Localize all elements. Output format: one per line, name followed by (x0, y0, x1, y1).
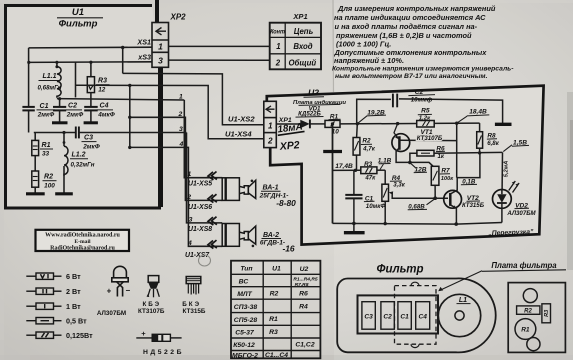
svg-text:АЛ307БМ: АЛ307БМ (506, 210, 536, 217)
svg-text:0,5 Вт: 0,5 Вт (66, 317, 87, 326)
svg-text:0,32мГн: 0,32мГн (70, 162, 94, 169)
svg-text:ВС: ВС (239, 278, 249, 285)
svg-text:К50-12: К50-12 (233, 342, 255, 349)
svg-text:3: 3 (158, 56, 163, 66)
svg-text:КТ315Б: КТ315Б (462, 202, 485, 209)
svg-text:R3: R3 (98, 78, 107, 85)
svg-text:R4: R4 (299, 303, 308, 310)
hole bottom (527, 338, 540, 351)
svg-text:RadiOtehnika@narod.ru: RadiOtehnika@narod.ru (50, 245, 115, 251)
svg-text:R1: R1 (521, 327, 530, 334)
capacitor C2 (U1) (59, 99, 61, 107)
capacitor C1 (layout) (398, 302, 411, 330)
svg-text:Общий: Общий (288, 58, 316, 67)
svg-text:Фильтр: Фильтр (59, 19, 98, 30)
svg-text:ным вольтметром В7-17 или анал: ным вольтметром В7-17 или аналогичным. (335, 73, 488, 80)
svg-text:4: 4 (187, 240, 192, 247)
inductor L1.2 (63, 133, 65, 147)
leader 9,2В (358, 116, 367, 123)
svg-text:2мкФ: 2мкФ (82, 144, 100, 151)
thick bus below XP2 (U1 right edge) (160, 67, 163, 207)
svg-text:R7,R8: R7,R8 (295, 282, 309, 288)
legend row 6W (26, 273, 61, 279)
resistor R6 (417, 150, 434, 156)
parts table (231, 261, 320, 359)
resistor R1 (layout) (515, 319, 536, 340)
connector XP1 (U2 side) (264, 101, 277, 147)
svg-text:R1: R1 (42, 142, 51, 149)
transistor package КТ3107Б (148, 276, 159, 283)
resistor R2 (layout) (517, 306, 540, 314)
svg-text:17,4В: 17,4В (335, 163, 353, 170)
wire node to R7 (410, 162, 433, 166)
svg-text:100к: 100к (441, 176, 454, 182)
common bus vertical from wire B (129, 85, 131, 147)
legend row 0,5W (26, 318, 61, 324)
wire rail R1 to R5 (340, 123, 417, 125)
wire rail R5 right (434, 122, 479, 124)
connector chevrons on speaker wires (208, 172, 217, 249)
svg-text:U1-XS8: U1-XS8 (188, 226, 212, 233)
ground bar under C4 (84, 121, 98, 124)
svg-text:-16: -16 (282, 244, 294, 254)
connector table XP1 (270, 23, 321, 70)
LED arrows (509, 181, 519, 193)
svg-text:+: + (107, 287, 112, 296)
page crease line (332, 0, 335, 92)
svg-text:Фильтр: Фильтр (377, 264, 424, 276)
resistor R3 (U1) (90, 62, 92, 76)
svg-text:−: − (125, 286, 130, 295)
svg-text:1,2к: 1,2к (419, 116, 431, 122)
transistor VT1 (392, 134, 410, 152)
svg-text:U1-XS4: U1-XS4 (225, 130, 252, 139)
legend row 1W (26, 303, 61, 309)
svg-text:C2: C2 (68, 103, 77, 110)
node junction on XS1 row (121, 46, 124, 49)
faint circle mark (199, 255, 211, 266)
svg-text:Цепь: Цепь (294, 27, 314, 36)
diode drawing НД522Б (136, 337, 152, 339)
U1 filter box outline (6, 6, 160, 209)
svg-text:R2: R2 (524, 308, 532, 314)
capacitor C1 (22, 107, 34, 111)
svg-text:U1-XS6: U1-XS6 (188, 204, 212, 211)
svg-text:Вход: Вход (293, 42, 312, 51)
bottom edge shadow (0, 355, 573, 360)
capacitor C3 (layout) (362, 302, 375, 330)
wire 2 row (to BA-1 -) (130, 117, 222, 200)
svg-text:U2: U2 (308, 88, 319, 98)
resistor R3 (U2) (361, 167, 377, 174)
connector XP2 stub wire (155, 0, 159, 23)
svg-text:2: 2 (275, 59, 281, 68)
svg-text:Www.radiOtehnika.narod.ru: Www.radiOtehnika.narod.ru (45, 233, 120, 239)
svg-text:R3: R3 (364, 161, 373, 168)
svg-text:2мкФ: 2мкФ (66, 112, 84, 119)
svg-text:НД522Б: НД522Б (143, 349, 184, 356)
ground bar right (495, 123, 512, 126)
wire XP2 pin3 to XP1 (169, 59, 270, 61)
node junctions on XS3 row (27, 61, 30, 64)
svg-text:R2: R2 (270, 291, 279, 298)
capacitor C3 (76, 127, 79, 139)
svg-text:U1: U1 (272, 266, 281, 273)
ground bus left (chassis) (332, 124, 334, 223)
svg-text:0,68мГн: 0,68мГн (37, 85, 61, 92)
wire B to U1-XS4 (75, 62, 77, 97)
svg-text:1 Вт: 1 Вт (66, 302, 81, 311)
svg-text:XS1: XS1 (136, 38, 151, 47)
filter pcb board (508, 283, 565, 353)
inductor L1 (layout) (438, 294, 480, 336)
LED drawing АЛ307БМ (112, 266, 128, 296)
ground bar under R2 (26, 192, 45, 195)
svg-text:С1...С4: С1...С4 (265, 352, 288, 359)
svg-text:КТ3107Б: КТ3107Б (417, 135, 443, 142)
resistor R3 (layout) (542, 304, 551, 323)
bottom rail (333, 223, 502, 225)
capacitor C4 (84, 107, 98, 111)
wire 3 / C3 row (to BA-2 +) (34, 132, 75, 134)
ground under C1 (352, 222, 356, 226)
svg-text:Конт: Конт (270, 29, 285, 35)
svg-text:-8-80: -8-80 (276, 198, 296, 208)
U2 board outline (267, 86, 544, 245)
note text block (332, 4, 514, 80)
transistor VT2 (444, 190, 462, 208)
resistor R1 (U2) (325, 120, 340, 127)
svg-text:6ГДВ-1-: 6ГДВ-1- (260, 240, 285, 247)
filter chassis outline (337, 278, 496, 352)
svg-text:Тип: Тип (240, 266, 253, 273)
labels U1-XS5..XS7 (185, 181, 212, 260)
svg-text:R6: R6 (299, 290, 308, 297)
ground bar under L1.2 (55, 192, 73, 195)
diode VD1 (300, 120, 309, 129)
inductor L1.1 (56, 62, 58, 66)
resistor R8 (479, 123, 481, 132)
capacitor C2 (U2) branch (357, 99, 391, 124)
hole top (523, 289, 537, 303)
svg-text:5,2мА: 5,2мА (504, 161, 510, 178)
connector XP2 (152, 23, 169, 68)
resistor R2 (U2) (356, 124, 359, 138)
svg-text:L1.1: L1.1 (42, 73, 56, 80)
svg-text:КТ3107Б: КТ3107Б (138, 308, 165, 315)
svg-text:МБГО-2: МБГО-2 (232, 353, 258, 360)
svg-text:R3: R3 (544, 309, 550, 317)
svg-text:R1: R1 (269, 316, 278, 323)
wire vertical left x28.6 (28, 48, 30, 107)
svg-text:C4: C4 (100, 103, 109, 110)
svg-text:xS3: xS3 (137, 53, 151, 62)
svg-text:L1: L1 (459, 297, 467, 304)
leader 0,68В (427, 199, 435, 205)
dashed filter board (395, 286, 437, 345)
resistor R7 (431, 166, 439, 185)
svg-text:ВА-1: ВА-1 (262, 185, 278, 192)
svg-text:ХР2: ХР2 (278, 139, 300, 153)
wire A to U1-XS2 (123, 73, 264, 124)
svg-text:XP1: XP1 (292, 12, 307, 21)
svg-text:3,3к: 3,3к (393, 182, 405, 189)
wire 4 row (to BA-2 -) (130, 147, 222, 246)
svg-text:100: 100 (44, 183, 55, 190)
capacitor C1 (U2) (353, 170, 355, 195)
wire XP2 pin1 to XP1 (169, 45, 270, 47)
wire XS1 row (29, 46, 152, 49)
svg-text:СП3-38: СП3-38 (234, 304, 258, 311)
svg-text:1: 1 (188, 171, 192, 178)
handwritten 18мА (276, 121, 304, 135)
svg-text:1: 1 (158, 42, 163, 52)
svg-text:10мкФ: 10мкФ (366, 203, 386, 210)
svg-text:E-mail: E-mail (74, 239, 91, 245)
svg-text:1: 1 (179, 94, 183, 101)
leader 18,4В (457, 116, 467, 123)
leader 1,5В (503, 145, 512, 152)
svg-text:18,4В: 18,4В (469, 109, 487, 116)
svg-text:L1.2: L1.2 (71, 152, 85, 159)
wire 17,4В row (333, 169, 361, 171)
svg-text:С4: С4 (418, 314, 427, 321)
svg-text:СП5-28: СП5-28 (234, 317, 258, 324)
svg-text:0,125Вт: 0,125Вт (66, 331, 93, 340)
svg-text:МЛТ: МЛТ (237, 291, 252, 298)
svg-text:C3: C3 (84, 135, 93, 142)
node 12В (408, 161, 412, 165)
R4 wiper arrow to VT2 base (390, 193, 448, 199)
svg-text:4мкФ: 4мкФ (97, 112, 115, 119)
svg-text:С5-37: С5-37 (235, 330, 255, 337)
resistor R4 (trimmer) (384, 170, 386, 184)
node junctions on C3 row (62, 131, 65, 134)
svg-text:2 Вт: 2 Вт (66, 287, 81, 296)
speaker BA-1 (222, 178, 256, 201)
svg-text:C1: C1 (40, 103, 49, 110)
speaker BA-2 (222, 224, 256, 247)
svg-text:6,8к: 6,8к (487, 140, 499, 147)
svg-text:С1: С1 (400, 314, 409, 321)
svg-text:на плате индикации отсоединяет: на плате индикации отсоединяется АС (334, 13, 486, 22)
svg-text:+: + (141, 329, 146, 338)
svg-text:Для измерения контрольных н: Для измерения контрольных напряжений (337, 4, 496, 13)
svg-text:6 Вт: 6 Вт (66, 272, 81, 281)
capacitor block (358, 295, 439, 333)
svg-text:R1...R4,R5: R1...R4,R5 (293, 277, 317, 283)
svg-text:1: 1 (268, 121, 273, 130)
svg-text:КТ315Б: КТ315Б (183, 308, 206, 315)
svg-text:47к: 47к (364, 174, 376, 181)
svg-text:R2: R2 (362, 138, 371, 145)
svg-text:U1-XS2: U1-XS2 (228, 115, 255, 124)
svg-text:и на вход платы подаётся сигна: и на вход платы подаётся сигнал на- (335, 22, 478, 31)
resistor R1 (U1) (34, 133, 36, 141)
svg-text:ВА-2: ВА-2 (263, 232, 279, 239)
svg-text:Плата фильтра: Плата фильтра (491, 261, 557, 270)
watermark box (36, 230, 130, 251)
svg-text:2: 2 (178, 111, 183, 118)
svg-text:12: 12 (98, 87, 106, 94)
svg-text:R5: R5 (421, 107, 430, 114)
svg-text:10ммф: 10ммф (411, 97, 433, 104)
svg-text:2мкФ: 2мкФ (37, 112, 55, 119)
svg-text:2: 2 (267, 137, 273, 146)
wire to VD2 (501, 152, 503, 189)
svg-text:4: 4 (179, 141, 184, 148)
LED VD2 (493, 190, 512, 209)
svg-text:2: 2 (186, 194, 191, 201)
leader to filter board (440, 271, 483, 291)
wire rail from pin1 (276, 123, 300, 125)
svg-text:С1,С2: С1,С2 (295, 341, 314, 348)
capacitor C2 (layout) (381, 302, 394, 330)
svg-text:R3: R3 (269, 329, 278, 336)
legend row 2W (26, 288, 61, 294)
svg-text:U1-XS5: U1-XS5 (188, 181, 212, 188)
svg-text:С3: С3 (364, 314, 373, 321)
svg-text:3: 3 (179, 126, 183, 133)
transistor package КТ315Б (186, 277, 201, 284)
svg-text:33: 33 (42, 151, 50, 158)
svg-text:R2: R2 (44, 174, 53, 181)
right edge smudge (567, 92, 573, 270)
svg-text:XP2: XP2 (170, 13, 187, 22)
wire XS3 row (29, 61, 152, 64)
svg-text:U1: U1 (72, 7, 84, 18)
resistor R5 (417, 121, 435, 128)
svg-text:3: 3 (189, 216, 193, 223)
svg-text:АЛ307БМ: АЛ307БМ (97, 310, 126, 317)
resistor R2 (U1) (32, 171, 39, 187)
legend row 0,125W (26, 332, 61, 338)
wire 1 row (to BA-1 +) (57, 99, 184, 100)
capacitor C4 (layout) (416, 302, 430, 330)
svg-text:напряжений ± 10%.: напряжений ± 10%. (334, 56, 404, 65)
wire vertical x122.7 (122, 48, 124, 74)
svg-text:1: 1 (276, 42, 280, 51)
svg-text:4,7к: 4,7к (362, 146, 376, 153)
svg-text:С2: С2 (383, 314, 392, 321)
svg-text:Контрольные напряжения измеряю: Контрольные напряжения измеряются универ… (332, 66, 514, 73)
ground bar under C2 (52, 121, 68, 124)
label U1 / Фильтр (59, 7, 98, 30)
wire number labels 1-4 (178, 94, 193, 247)
svg-text:U2: U2 (300, 266, 309, 273)
